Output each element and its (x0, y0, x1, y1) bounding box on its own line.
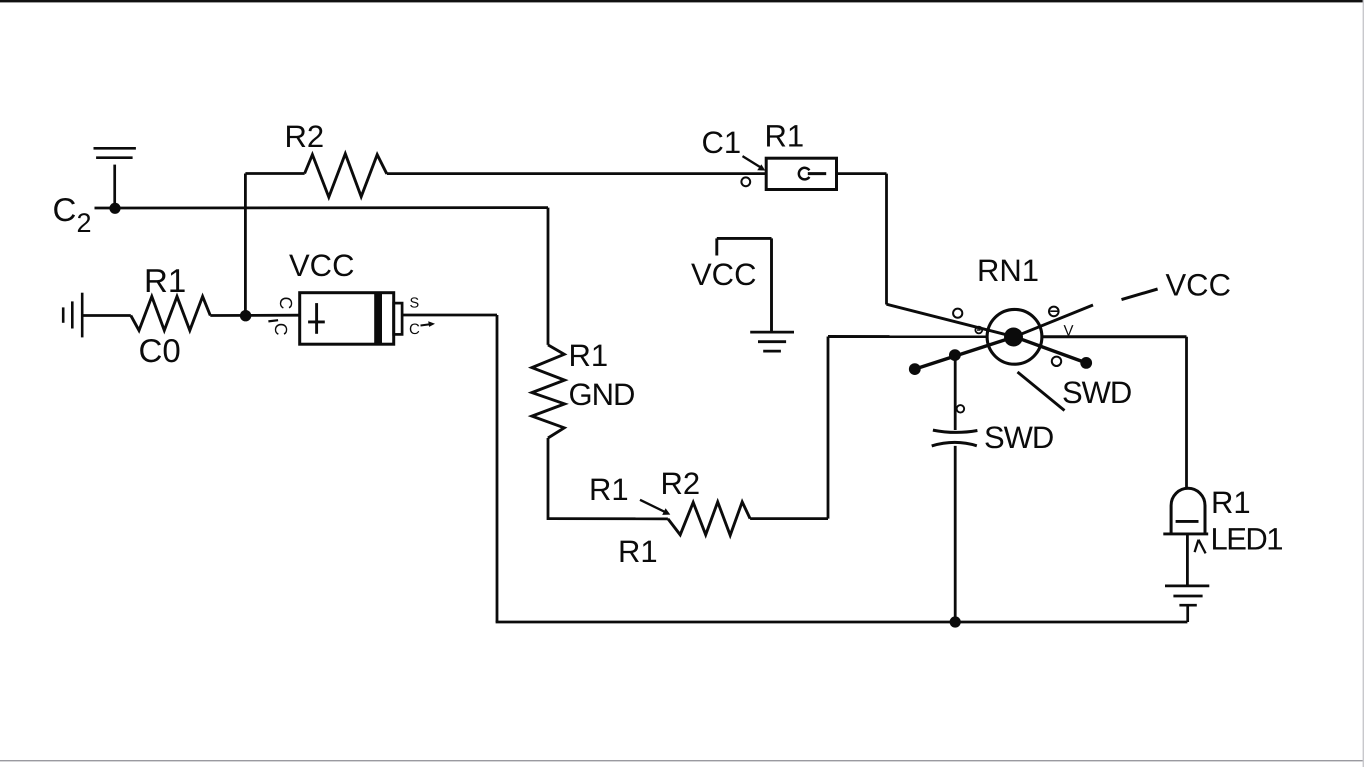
terminal dot spoke d end (1080, 357, 1092, 369)
RN1 spoke d (lower-right) (1015, 337, 1087, 363)
capacitor SWD plate 1 (933, 430, 978, 432)
right border frame line (1363, 0, 1364, 767)
svg-text:C: C (276, 297, 296, 310)
RN1 body circle (987, 309, 1042, 364)
pin circle C1 (741, 177, 750, 186)
junction dot node A (240, 310, 251, 321)
svg-text:SWD: SWD (984, 420, 1053, 455)
LED1 dome (1171, 488, 1205, 534)
battery VCC (box with + and bars) (300, 293, 402, 345)
small pin circle near circle edge (975, 327, 982, 334)
svg-text:C: C (53, 191, 77, 228)
wire battery to R1 (82, 314, 131, 317)
wire capacitor bottom (954, 446, 957, 622)
wire RN1 left horizontal (828, 335, 988, 338)
node C2 label (53, 191, 92, 238)
pin circle on spoke d (1052, 357, 1061, 366)
power rail VCC (middle bracket) (717, 238, 772, 332)
ground (two-bar rail at C2) (94, 148, 136, 208)
leader arrow R1 bottom (640, 500, 670, 515)
junction dot bottom bus (950, 616, 961, 627)
wire right vertical down to LED (1185, 337, 1188, 489)
bottom bus wire (496, 621, 1188, 624)
pin label C-bar (rotated, below wire) (268, 320, 291, 335)
pin circle capacitor (957, 405, 965, 413)
svg-text:RN1: RN1 (977, 253, 1039, 288)
wire VCC battery to right corner (402, 314, 497, 317)
svg-text:C: C (271, 323, 291, 336)
resistor R2 (bottom zigzag) (668, 502, 750, 535)
svg-text:R1: R1 (765, 118, 805, 153)
ground (battery style, under LED) (1165, 586, 1209, 622)
svg-text:R2: R2 (285, 119, 325, 154)
svg-text:R1: R1 (618, 534, 658, 569)
terminal dot spoke c mid (949, 349, 961, 361)
svg-text:R1: R1 (589, 472, 629, 507)
wire bottom R2 right segment (750, 517, 828, 520)
pin circle on spoke a (953, 309, 962, 318)
junction C2 (109, 203, 120, 214)
svg-text:C1: C1 (702, 125, 742, 160)
wire bottom R2 left segment (548, 517, 668, 520)
resistor R1 / C0 (horizontal zigzag) (131, 297, 211, 331)
svg-text:VCC: VCC (289, 248, 354, 283)
RN1 center dot (1004, 328, 1023, 347)
wire vertical junction A up to top wire (244, 174, 247, 316)
capacitor SWD plate 2 (932, 442, 977, 446)
leader line SWD (RN1) (1018, 372, 1065, 411)
svg-text:S: S (410, 296, 420, 312)
svg-text:C: C (409, 321, 420, 338)
svg-text:SWD: SWD (1062, 375, 1131, 410)
battery cell (left, 3 bars) (63, 293, 82, 338)
svg-text:C0: C0 (139, 332, 181, 369)
wire corner down to RN1 spoke (885, 174, 888, 305)
terminal dot spoke c end (909, 363, 921, 375)
LED1 arrow mark (1195, 540, 1206, 554)
svg-text:R1: R1 (144, 262, 186, 299)
leader dash VCC (right) (1122, 289, 1158, 300)
svg-text:2: 2 (77, 208, 92, 238)
bottom border frame line (0, 760, 1364, 761)
svg-text:GND: GND (569, 377, 635, 412)
svg-text:VCC: VCC (691, 257, 756, 292)
svg-text:R1: R1 (1211, 485, 1251, 520)
wire C2 horizontal (95, 206, 549, 209)
wire R2 to C1 box (387, 172, 766, 175)
pin label C with arrow (409, 321, 435, 338)
wire LED to ground (1186, 534, 1189, 586)
ground (middle, 3 bars) (750, 332, 794, 351)
leader arrow C1 (743, 156, 766, 171)
component R1 box (with key symbol) (766, 158, 836, 189)
wire RN1 right horizontal (1042, 335, 1187, 338)
pin circle on spoke b (with tick) (1049, 307, 1059, 317)
RN1 spoke b (upper-right) (1015, 305, 1094, 337)
wire capacitor top (from spoke c dot) (954, 355, 957, 430)
svg-text:R1: R1 (569, 338, 609, 373)
wire C2 corner down to R1/GND (547, 208, 550, 345)
RN1 spoke c (lower-left) (915, 337, 1015, 369)
wire box to corner (837, 172, 887, 175)
wire corner down (496, 315, 499, 622)
LED1 base bar (1163, 532, 1208, 535)
LED1 inner bar (1176, 520, 1199, 523)
svg-text:VCC: VCC (1166, 267, 1231, 302)
wire R1 GND bottom (547, 438, 550, 520)
top border frame line (0, 0, 1364, 2)
svg-text:R2: R2 (661, 466, 701, 501)
wire R1 to VCC battery (210, 314, 299, 317)
wire RN1 left vertical down (827, 337, 830, 519)
resistor R1 GND (vertical zigzag) (532, 345, 565, 438)
resistor R2 (top zigzag) (305, 154, 387, 197)
wire top-left segment to R2 (245, 172, 304, 175)
RN1 spoke a (upper-left) (887, 304, 1015, 337)
svg-text:LED1: LED1 (1211, 522, 1283, 557)
